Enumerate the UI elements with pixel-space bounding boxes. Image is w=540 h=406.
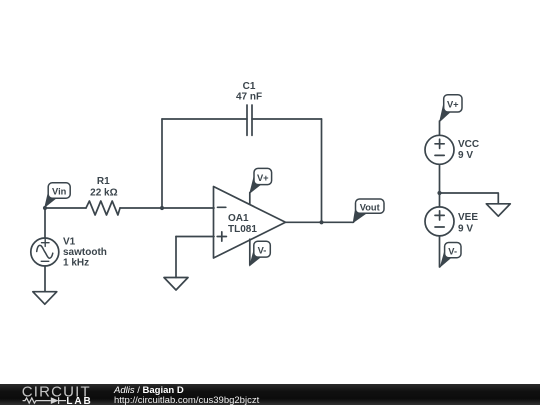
wire: op-amp output <box>286 221 354 223</box>
wire: supply junction to ground branch <box>440 193 499 204</box>
node V+ flag (op-amp supply) <box>250 168 272 192</box>
svg-text:V-: V- <box>258 246 267 256</box>
resistor R1 <box>86 201 120 215</box>
svg-text:Vin: Vin <box>52 187 67 197</box>
node V+ flag (rail) <box>440 95 462 122</box>
source VEE plus sign <box>435 211 444 220</box>
wire: Vin junction down to V1 <box>44 208 46 238</box>
svg-text:9 V: 9 V <box>458 223 473 234</box>
CircuitLab logo <box>20 384 100 405</box>
svg-text:LAB: LAB <box>66 396 90 405</box>
svg-text:V+: V+ <box>257 173 269 183</box>
node Vin flag <box>45 183 70 207</box>
source VCC circle <box>425 135 454 164</box>
wire: VEE bottom stub <box>439 236 441 267</box>
junction dot at supply rail <box>437 191 441 195</box>
source V1 circle <box>31 238 59 266</box>
wire: C1 to feedback right corner <box>252 118 322 120</box>
wire: R1 to op-amp inverting input <box>120 207 214 209</box>
svg-text:1 kHz: 1 kHz <box>63 258 89 269</box>
wire: V1 to ground <box>44 266 46 292</box>
node Vout flag <box>353 199 384 222</box>
ground (non-inverting input) <box>164 278 188 291</box>
ground (V1) <box>33 292 57 305</box>
svg-text:V-: V- <box>448 246 457 256</box>
junction dot at feedback tap <box>160 206 164 210</box>
op-amp inverting input symbol <box>218 206 226 208</box>
source V1 minus sign <box>41 260 49 262</box>
footer url text <box>114 396 259 405</box>
svg-text:VEE: VEE <box>458 212 478 223</box>
svg-text:TL081: TL081 <box>228 224 257 235</box>
wire: V+ rail flag to VCC <box>439 121 441 135</box>
junction dot at Vin <box>43 206 47 210</box>
source V1 plus sign <box>42 239 50 246</box>
capacitor C1 <box>247 105 252 135</box>
wire: non-inverting input down to ground <box>175 237 177 278</box>
wire: VCC to VEE <box>439 164 441 207</box>
junction dot at output/feedback <box>319 220 323 224</box>
wire: op-amp V+ pin stub <box>249 193 251 204</box>
footer bar <box>0 384 540 405</box>
source V1 sine symbol <box>37 245 53 258</box>
op-amp OA1 <box>214 187 286 259</box>
svg-text:C1: C1 <box>243 81 256 92</box>
wire: non-inverting input <box>176 236 214 238</box>
wire: feedback right vertical <box>321 119 323 222</box>
svg-text:47 nF: 47 nF <box>236 91 262 102</box>
wire: op-amp V- pin stub <box>249 239 251 265</box>
source VEE circle <box>425 207 454 236</box>
svg-text:V1: V1 <box>63 236 76 247</box>
svg-text:VCC: VCC <box>458 139 479 150</box>
op-amp non-inverting input symbol <box>217 232 226 241</box>
wire: feedback top left to C1 <box>162 118 247 120</box>
svg-text:OA1: OA1 <box>228 213 249 224</box>
wire: Vin junction to R1 <box>45 207 86 209</box>
source VEE minus sign <box>435 226 444 228</box>
svg-text:sawtooth: sawtooth <box>63 247 107 258</box>
svg-text:R1: R1 <box>97 176 110 187</box>
ground (supply rail) <box>486 204 510 216</box>
wire: feedback left vertical <box>161 119 163 208</box>
node V- flag (rail) <box>440 243 461 268</box>
svg-text:V+: V+ <box>447 100 459 110</box>
svg-text:9 V: 9 V <box>458 150 473 161</box>
footer title text <box>114 386 184 395</box>
source VCC minus sign <box>435 154 444 156</box>
svg-text:22 kΩ: 22 kΩ <box>90 188 117 199</box>
svg-text:Vout: Vout <box>360 202 380 212</box>
source VCC plus sign <box>435 139 444 148</box>
node V- flag (op-amp supply) <box>250 241 270 265</box>
